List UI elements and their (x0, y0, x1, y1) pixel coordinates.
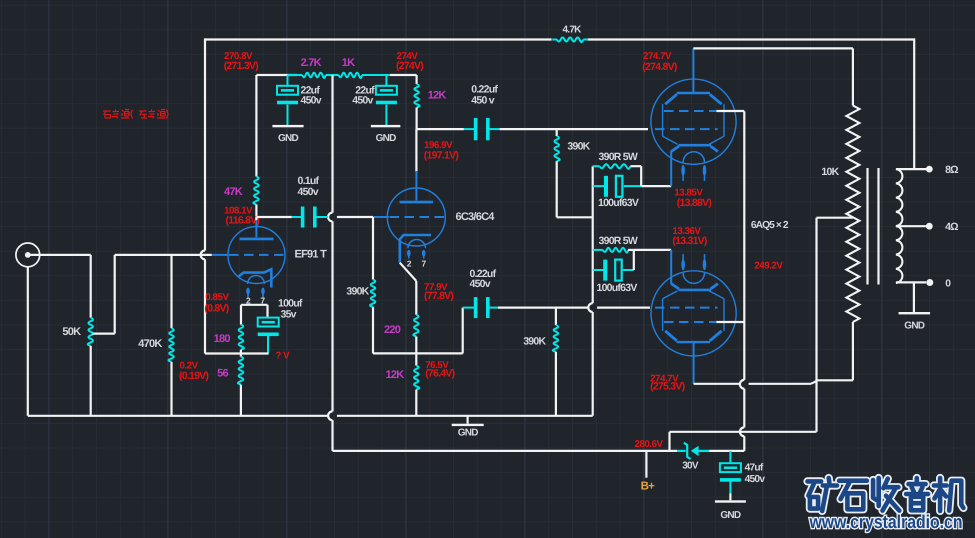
tube V4 beam bar (678, 289, 711, 292)
tube V3 grid dashes (655, 128, 718, 130)
svg-text:4.7K: 4.7K (563, 24, 583, 35)
svg-text:(0.19V): (0.19V) (179, 370, 208, 382)
wire 12K to plate node (416, 108, 418, 130)
svg-text:450v: 450v (352, 94, 373, 106)
transformer T1 primary 10K winding (846, 106, 859, 323)
tube V3 heater pin left (682, 165, 684, 181)
wire V3 cathode blue lead (670, 151, 672, 186)
ground symbol for C9 (715, 500, 746, 502)
svg-text:B+: B+ (641, 481, 656, 493)
wire hop network vertical over grid wire (588, 303, 592, 312)
svg-text:(76.4V): (76.4V) (425, 368, 454, 380)
wire secondary 4ohm tap (896, 225, 926, 227)
svg-text:(13.88V): (13.88V) (677, 197, 712, 209)
wire 390K to cathode network ground leg (557, 216, 593, 218)
input jack J1 (16, 243, 40, 267)
svg-text:12K: 12K (428, 90, 447, 102)
tube V3 6AQ5 envelope (651, 79, 736, 164)
wire jack to volume pot (31, 254, 91, 256)
tube V4 heater pin right (704, 254, 706, 270)
resistor R6 220 build-out (413, 315, 418, 337)
svg-text:GND: GND (458, 428, 479, 439)
terminal dot 0 (926, 279, 933, 286)
svg-text:390K: 390K (567, 140, 590, 152)
resistor R7 390K bootstrap (372, 217, 374, 280)
svg-text:50K: 50K (62, 326, 81, 338)
resistor R13 390K grid leak lower (555, 308, 557, 325)
svg-text:(274V): (274V) (396, 60, 423, 72)
svg-text:(274.8V): (274.8V) (642, 61, 677, 73)
tube V4 screen dashes (664, 321, 717, 323)
wire hop screens vertical over plate wire (740, 380, 744, 389)
tube V3 beam cage walls (662, 104, 664, 136)
wire coupling to 6C3 grid (337, 216, 373, 218)
ground symbol for C2 (371, 125, 401, 127)
capacitor C8 100uf 63V lower bypass (593, 269, 604, 271)
svg-text:1K: 1K (342, 57, 355, 69)
tube V2 heater pin 2 (408, 250, 410, 259)
capacitor C3 0.1uf 450v coupling (292, 216, 302, 218)
svg-text:(271.3V): (271.3V) (224, 60, 259, 72)
wire grid rail to EF91 (115, 254, 212, 256)
svg-text:280.6V: 280.6V (635, 439, 664, 450)
svg-text:390K: 390K (346, 285, 369, 297)
wire C6 to lower 6AQ5 grid (498, 307, 588, 309)
wire EF91 grid blue stub (212, 254, 229, 256)
tube V4 plate lead (693, 342, 695, 384)
wire V4 screen to B+ vertical (717, 321, 745, 323)
svg-text:4Ω: 4Ω (945, 221, 958, 233)
resistor VR1 50K volume (88, 318, 93, 346)
svg-text:www.crystalradio.cn: www.crystalradio.cn (809, 511, 963, 532)
wire plate node to coupling cap C5 (417, 128, 464, 130)
wire V3 screen to B+ vertical (717, 110, 745, 112)
svg-text:12K: 12K (386, 369, 405, 381)
wire B+ feed riser (668, 432, 670, 451)
tube V1 plate bar (240, 238, 274, 241)
ground symbol secondary (913, 282, 915, 312)
resistor R1 470K grid leak (170, 255, 172, 328)
svg-text:390K: 390K (523, 336, 546, 348)
wire B+ stem (645, 451, 647, 478)
tube V4 6AQ5 envelope (651, 271, 736, 356)
resistor R2 47K plate load (253, 177, 258, 205)
svg-text:6AQ5 × 2: 6AQ5 × 2 (751, 220, 789, 231)
capacitor C5 0.22uf 450v coupling (464, 128, 474, 130)
svg-text:100uf63V: 100uf63V (597, 282, 638, 294)
wire 50K bottom to ground rail (90, 346, 92, 416)
svg-text:GND: GND (904, 320, 925, 331)
wire 220 to output node (415, 337, 417, 354)
wire zener to screens vertical (709, 450, 744, 452)
resistor R12 390K grid leak upper (556, 129, 558, 136)
svg-text:180: 180 (214, 333, 231, 345)
svg-text:56: 56 (217, 368, 228, 380)
tube V3 plate ticks (665, 94, 677, 104)
wire 47K from B+ rail (255, 75, 257, 177)
svg-text:10K: 10K (821, 166, 839, 178)
ground symbol for C1 (272, 125, 303, 127)
svg-text:100uf63V: 100uf63V (598, 197, 639, 209)
tube V4 beam cage walls (662, 299, 664, 331)
wire secondary 8ohm tap (896, 168, 926, 170)
node label right channel note (103, 110, 168, 119)
resistor R14 390R 5W upper (593, 165, 600, 167)
ground symbol main GND (467, 416, 469, 424)
tube V2 6C3 envelope (387, 188, 445, 246)
wire B+ filter rail 270.8V to 274V (256, 74, 297, 76)
wire hop B+ vertical over ground rail (328, 411, 332, 420)
resistor R9 4.7K feedback (552, 39, 557, 41)
svg-text:47uf: 47uf (745, 463, 764, 474)
svg-text:EF91 T: EF91 T (295, 248, 328, 260)
tube V2 heater pin 7 (423, 250, 425, 259)
wire 47K to plate node (255, 205, 257, 218)
tube V3 beam ticks (671, 146, 679, 151)
tube V3 plate lead (692, 48, 694, 93)
svg-text:(116.8V): (116.8V) (226, 215, 260, 227)
wire bias network ground vertical (592, 166, 594, 303)
wire V4 plate to junction (694, 383, 740, 385)
svg-text:GND: GND (376, 133, 397, 144)
wire hop B+ vertical over coupling wire (328, 213, 332, 222)
tube V1 heater pin 2 (247, 288, 249, 298)
tube V3 plate bar (677, 92, 710, 94)
wire primary tap (817, 217, 853, 219)
capacitor C9 47uf 450v reservoir (729, 451, 731, 463)
tube V1 heater arch (248, 276, 265, 284)
tube V2 grid dashes (390, 216, 445, 218)
capacitor C7 100uf 63V upper bypass (593, 185, 605, 187)
svg-text:(197.1V): (197.1V) (424, 150, 459, 162)
capacitor C4 100uf 35v cathode bypass (258, 318, 279, 327)
resistor R8 12K cathode load (415, 353, 417, 365)
wire feedback junction at cathode (205, 352, 269, 354)
wire B+ rail bottom (333, 450, 678, 452)
wire V2 cathode diagonal (400, 263, 417, 281)
tube V2 cathode bar (400, 235, 431, 263)
wire network1 right side to cathode (640, 166, 642, 186)
svg-text:8Ω: 8Ω (945, 164, 958, 176)
svg-text:450v: 450v (470, 278, 491, 290)
svg-text:35v: 35v (281, 308, 297, 320)
capacitor C1 22uf 450v filter (287, 75, 289, 86)
tube V1 grid dashes (229, 254, 285, 256)
wire output node up to C6 (462, 308, 464, 354)
svg-text:(0.8V): (0.8V) (204, 302, 228, 314)
wire 6C3 grid blue stub (373, 216, 389, 218)
wire V4 cathode blue lead (670, 250, 672, 284)
resistor R5 12K plate load (414, 84, 419, 108)
wire cathode to 220 (415, 281, 417, 315)
svg-text:(13.31V): (13.31V) (672, 235, 707, 247)
wire plate node to coupling cap (256, 216, 291, 218)
tube V4 heater pin left (682, 254, 684, 270)
terminal dot 4ohm (926, 223, 933, 230)
wire left feedback vertical (204, 38, 206, 250)
tube V4 beam ticks (671, 284, 679, 289)
wire network2 right side (633, 250, 635, 270)
wire C5 to upper 6AQ5 grid (500, 128, 648, 130)
wire right vertical from 8ohm tap (913, 38, 915, 169)
tube V1 cathode bar (239, 269, 272, 287)
resistor R11 1K (339, 73, 362, 78)
watermark crystalradio logo (808, 478, 964, 511)
wire hop feedback over grid wire (201, 251, 205, 260)
tube V4 plate bar (677, 341, 710, 343)
tube V2 plate lead (415, 129, 417, 172)
tube V3 beam bar (678, 144, 711, 147)
tube V4 grid dashes (655, 307, 718, 309)
svg-text:30V: 30V (682, 461, 699, 472)
svg-text:2.7K: 2.7K (301, 57, 322, 69)
wire secondary 0 tap (896, 281, 926, 283)
svg-text:(77.8V): (77.8V) (424, 290, 453, 302)
svg-text:47K: 47K (224, 186, 243, 198)
resistor R3 180 cathode (239, 325, 244, 350)
tube V4 cathode arch (683, 273, 704, 284)
ground rail bottom (28, 415, 328, 417)
svg-text:? V: ? V (275, 350, 290, 361)
wire screens B+ vertical (743, 111, 745, 380)
svg-text:(275.3V): (275.3V) (650, 381, 685, 393)
svg-text:220: 220 (384, 324, 401, 336)
svg-text:390R 5W: 390R 5W (599, 235, 638, 247)
svg-text:249.2V: 249.2V (754, 260, 783, 271)
tube V3 heater pin right (704, 165, 706, 181)
resistor R10 2.7K (302, 73, 325, 78)
wire V1 cathode bracket (241, 304, 268, 306)
tube V3 cathode arch (683, 152, 704, 163)
transformer T1 secondary winding (896, 169, 902, 283)
resistor R4 56 cathode to ground (240, 350, 242, 357)
wire jack ground stem (27, 267, 29, 416)
tube V2 heater arch (408, 239, 426, 248)
wire junction down to B+ feed (815, 381, 817, 432)
svg-text:GND: GND (720, 510, 741, 521)
tube V1 heater pin 7 (262, 288, 264, 298)
tube V1 plate lead (255, 217, 257, 221)
wire pot wiper to grid rail (93, 333, 115, 335)
wire B+ feed to transformer (670, 431, 817, 433)
svg-text:390R 5W: 390R 5W (599, 151, 638, 163)
wire hop screens vertical over B+ feed wire (740, 427, 744, 436)
wire 12K from 274V rail (416, 75, 418, 84)
tube V2 plate bar (400, 201, 434, 204)
svg-text:450v: 450v (745, 474, 766, 485)
tube V1 EF91 envelope (228, 227, 285, 284)
svg-text:470K: 470K (138, 338, 162, 350)
wire top feedback rail (205, 38, 552, 40)
wire B+ drop vertical from 1K junction (331, 75, 333, 213)
wire primary bottom to junction (817, 379, 853, 381)
capacitor C2 22uf 450v filter (385, 75, 387, 86)
capacitor C6 0.22uf 450v coupling lower (463, 307, 475, 309)
wire V3 plate to primary top (693, 47, 853, 49)
svg-text:450v: 450v (301, 94, 322, 106)
transformer T1 core (866, 168, 868, 285)
wire cathode output node (373, 352, 463, 354)
tube V3 screen dashes (664, 110, 717, 112)
svg-text:450 v: 450 v (471, 94, 494, 106)
svg-text:GND: GND (278, 133, 299, 144)
svg-text:450v: 450v (298, 186, 319, 198)
diode D1 30V zener (677, 450, 686, 452)
svg-text:6C3/6C4: 6C3/6C4 (456, 211, 496, 223)
resistor R15 390R 5W lower (593, 249, 603, 251)
tube V4 plate ticks (665, 331, 677, 341)
terminal dot 8ohm (926, 166, 933, 173)
